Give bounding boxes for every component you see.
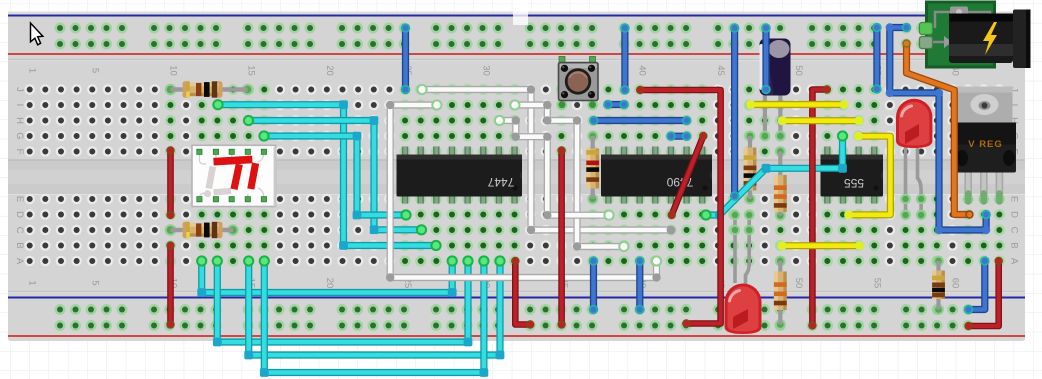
svg-text:10: 10 [167, 65, 178, 76]
svg-text:D: D [1008, 211, 1019, 218]
wire red row J col52 to bottom rail [808, 85, 831, 329]
top power rail blue line [8, 15, 1025, 17]
wire cyan row A col13 to row A col29 (loop below board) [212, 255, 474, 346]
svg-text:C: C [1008, 227, 1019, 234]
svg-text:555: 555 [844, 176, 864, 190]
wire blue top rail to row J col48 (over capacitor) [761, 23, 771, 94]
svg-text:B: B [1008, 242, 1019, 248]
svg-text:C: C [14, 227, 25, 234]
mouse cursor [31, 23, 43, 45]
wire yellow row B col49 to col54 [777, 241, 864, 250]
svg-text:40: 40 [637, 65, 648, 76]
resistor R5 (col 49, row A to rail) [774, 256, 787, 330]
wire blue row G col42 to col43 [666, 131, 691, 141]
svg-text:20: 20 [324, 278, 335, 289]
voltage regulator VR1 (TO-220) [955, 87, 1016, 205]
top power rail red line [8, 53, 1025, 55]
wire cyan row A col15 to row A col31 (loop below board) [243, 255, 506, 359]
svg-text:F: F [14, 149, 25, 155]
wire red col10 row B to bottom rail [166, 241, 174, 328]
push button S1 [557, 57, 598, 110]
wire yellow row H col49 to col54 [778, 116, 864, 125]
svg-text:B: B [14, 242, 25, 248]
IC U2 7490 [601, 147, 712, 204]
wire orange from power jack PCB to row D col61 [902, 39, 973, 218]
wire blue jumper row I cols 38-39 [603, 100, 629, 110]
resistor R7 (col 37, rows G-E) [586, 131, 599, 205]
svg-text:50: 50 [793, 278, 804, 289]
wire blue top rail to row J col25 [401, 23, 411, 94]
resistor R4 (col 49, rows F-D) [774, 146, 787, 221]
white connector stub at top edge [513, 0, 528, 25]
svg-text:A: A [1008, 258, 1019, 265]
svg-text:E: E [1008, 196, 1019, 202]
wire red row A col32 to bottom rail [511, 257, 534, 329]
wire red row A col63 to bottom rail [964, 257, 1003, 330]
svg-text:E: E [14, 196, 25, 202]
LED D2 (red, cols 46-47, bottom) [725, 210, 762, 334]
wire cyan row H col15 to row C col26 [243, 115, 427, 235]
resistor R1 (row J, cols 10-15) [165, 81, 254, 97]
resistor R3 (col 47, rows G-E) [744, 131, 757, 205]
7-segment display DISP1 [192, 145, 276, 206]
bottom power rail red line [8, 335, 1025, 337]
IC U3 555 timer [821, 147, 884, 204]
wire blue row A col62 to bottom rail [964, 256, 990, 314]
svg-text:45: 45 [715, 65, 726, 76]
svg-text:60: 60 [949, 278, 960, 289]
wire cyan row D col44 to row G col53 (diagonal) [700, 130, 848, 220]
svg-text:H: H [14, 117, 25, 124]
wire cyan row A col12 to row A col28 (loop inside board) [196, 255, 458, 297]
resistor R6 (col 59, row A to rail) [932, 256, 945, 315]
IC U1 7447 [397, 147, 523, 204]
barrel jack / battery [949, 10, 1031, 69]
bottom power rail blue line [8, 297, 1025, 299]
svg-text:30: 30 [480, 65, 491, 76]
svg-text:A: A [14, 258, 25, 265]
wire cyan row I col13 to row B col27 [212, 99, 441, 251]
svg-text:5: 5 [89, 280, 100, 285]
svg-text:1: 1 [27, 68, 38, 73]
center channel [8, 160, 1025, 195]
svg-text:7447: 7447 [487, 175, 514, 189]
wire blue top rail to row J col39 [620, 23, 630, 95]
wire red col10 row F to row D [166, 146, 174, 219]
svg-text:55: 55 [871, 278, 882, 289]
LED D1 (red, cols 57-58) [896, 99, 932, 220]
wire white row I col32 to row B col39 [509, 99, 629, 252]
wire blue row A col37 to bottom rail [589, 256, 599, 314]
wire cyan row A col16 to row A col30 (loop below board) [259, 255, 490, 377]
svg-text:G: G [14, 132, 25, 139]
svg-text:50: 50 [793, 65, 804, 76]
wire red diagonal row G col44 to row D col42 [668, 132, 708, 219]
svg-text:20: 20 [324, 65, 335, 76]
svg-text:I: I [14, 104, 25, 107]
wire white row J col26 to row C col42 [417, 84, 676, 235]
wire red col35 row F to bottom rail [557, 146, 565, 328]
svg-text:15: 15 [246, 65, 257, 76]
wire blue top rail to row E col46 [730, 23, 740, 201]
wire blue row A col40 to bottom rail [635, 256, 645, 314]
resistor R2 (row C, cols 10-14) [165, 222, 239, 238]
svg-text:J: J [14, 87, 25, 92]
wire yellow row I col47 to col53 [746, 100, 849, 109]
wire blue top rail col to row D col62 (long route) [886, 23, 991, 235]
wire blue top rail to row J col55 [872, 23, 882, 94]
svg-text:5: 5 [89, 68, 100, 73]
battery/power jack green PCB [920, 2, 995, 67]
svg-text:1: 1 [27, 280, 38, 285]
wire white row I col27 to row A col41 [386, 99, 662, 281]
wire white row H col31 to row D col38 [494, 115, 615, 221]
wire red row J col40 to bottom rail (L-shape right) [636, 86, 721, 328]
svg-text:D: D [14, 211, 25, 218]
electrolytic capacitor C1 [760, 39, 791, 142]
svg-text:V REG: V REG [968, 139, 1003, 150]
wire yellow row G col54 to row D col53 (around 555) [844, 132, 890, 220]
wire blue row H col37 to col43 [589, 116, 691, 126]
wire cyan row G col16 to row D col25 [258, 130, 411, 220]
